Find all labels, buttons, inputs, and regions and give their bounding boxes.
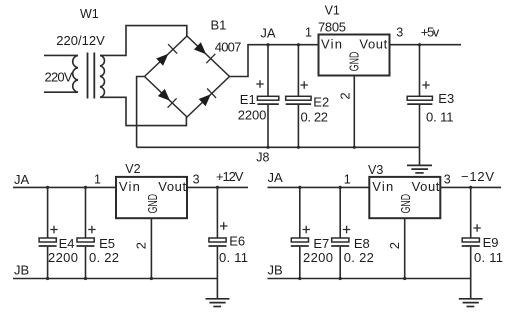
svg-text:0. 22: 0. 22 bbox=[89, 250, 119, 265]
svg-text:2: 2 bbox=[337, 92, 352, 99]
svg-text:E1: E1 bbox=[240, 92, 256, 107]
capacitor E2 bbox=[286, 46, 311, 148]
svg-text:+12V: +12V bbox=[216, 169, 244, 184]
svg-text:Vout: Vout bbox=[412, 179, 440, 194]
wire V1 output to +5v bbox=[390, 44, 462, 46]
capacitor E4 bbox=[39, 188, 58, 278]
svg-text:V1: V1 bbox=[325, 4, 340, 18]
svg-text:1: 1 bbox=[305, 26, 312, 40]
svg-text:Vin: Vin bbox=[119, 179, 140, 194]
regulator V3 bbox=[369, 177, 440, 218]
regulator V2 bbox=[116, 177, 187, 218]
svg-text:0. 22: 0. 22 bbox=[344, 250, 374, 265]
svg-text:2: 2 bbox=[134, 242, 149, 249]
wire V3 output to -12V bbox=[440, 186, 501, 188]
svg-text:2: 2 bbox=[387, 242, 402, 249]
svg-text:220/12V: 220/12V bbox=[56, 33, 105, 48]
svg-text:E6: E6 bbox=[229, 233, 245, 248]
svg-text:7805: 7805 bbox=[318, 20, 346, 35]
svg-text:Vout: Vout bbox=[158, 179, 186, 194]
svg-text:1: 1 bbox=[344, 173, 351, 187]
capacitor E6 bbox=[208, 188, 227, 278]
wire JA rail (bottom right section) bbox=[268, 186, 370, 188]
svg-text:E8: E8 bbox=[354, 236, 370, 251]
svg-text:4007: 4007 bbox=[215, 40, 242, 55]
capacitor E1 bbox=[256, 46, 279, 148]
svg-text:V2: V2 bbox=[125, 162, 140, 176]
svg-text:E2: E2 bbox=[313, 94, 329, 109]
svg-text:2200: 2200 bbox=[238, 107, 266, 122]
svg-text:JB: JB bbox=[268, 263, 283, 278]
capacitor E8 bbox=[331, 188, 350, 278]
ground symbol (bottom left) bbox=[206, 279, 230, 307]
transformer W1 bbox=[44, 53, 105, 99]
svg-text:3: 3 bbox=[444, 173, 451, 187]
svg-text:0. 11: 0. 11 bbox=[474, 250, 503, 265]
junction dots (bottom right) bbox=[298, 186, 472, 280]
svg-text:3: 3 bbox=[396, 26, 403, 40]
svg-text:−12V: −12V bbox=[461, 169, 494, 184]
wire ground rail (top section) bbox=[137, 146, 420, 148]
svg-text:2200: 2200 bbox=[48, 250, 78, 265]
ground symbol (top section) bbox=[407, 147, 432, 173]
svg-text:Vout: Vout bbox=[359, 37, 387, 52]
wire bridge negative to ground rail bbox=[137, 77, 145, 148]
wire JA rail (bottom left section) bbox=[13, 186, 116, 188]
svg-text:0. 11: 0. 11 bbox=[219, 250, 248, 265]
svg-text:W1: W1 bbox=[80, 7, 99, 21]
svg-text:JA: JA bbox=[268, 170, 284, 185]
regulator V1 7805 bbox=[319, 35, 390, 76]
capacitor E5 bbox=[77, 188, 96, 278]
wire secondary top to bridge top bbox=[100, 26, 187, 56]
svg-text:Vin: Vin bbox=[372, 179, 393, 194]
svg-text:GND: GND bbox=[145, 194, 160, 214]
svg-text:V3: V3 bbox=[368, 163, 383, 177]
svg-text:J8: J8 bbox=[256, 151, 269, 165]
svg-text:JB: JB bbox=[14, 263, 29, 278]
wire V3 GND pin 2 bbox=[404, 218, 406, 278]
svg-text:JA: JA bbox=[260, 25, 276, 40]
wire V2 GND pin 2 bbox=[150, 218, 152, 278]
capacitor E3 bbox=[407, 46, 432, 148]
svg-text:B1: B1 bbox=[211, 18, 227, 33]
svg-text:1: 1 bbox=[94, 173, 101, 187]
svg-text:0. 22: 0. 22 bbox=[301, 109, 329, 124]
junction dots (top section) bbox=[266, 43, 421, 149]
svg-text:3: 3 bbox=[193, 173, 200, 187]
svg-text:+5v: +5v bbox=[421, 25, 440, 40]
wire JB rail (bottom right section) bbox=[268, 278, 471, 280]
svg-text:2200: 2200 bbox=[303, 250, 333, 265]
svg-text:E3: E3 bbox=[438, 91, 454, 106]
junction dots (bottom left) bbox=[46, 186, 219, 280]
ground symbol (bottom right) bbox=[459, 279, 483, 307]
capacitor E9 bbox=[462, 188, 481, 278]
wire V1 GND pin 2 bbox=[353, 76, 355, 148]
bridge rectifier B1 bbox=[145, 36, 230, 117]
wire secondary bottom to bridge bottom bbox=[100, 97, 186, 125]
wire V2 output to +12V bbox=[187, 186, 248, 188]
svg-text:Vin: Vin bbox=[321, 37, 342, 52]
svg-text:GND: GND bbox=[346, 52, 361, 72]
capacitor E7 bbox=[291, 188, 310, 278]
wire bridge positive up to JA rail bbox=[230, 45, 319, 77]
svg-text:E7: E7 bbox=[313, 236, 329, 251]
svg-text:0. 11: 0. 11 bbox=[426, 109, 454, 124]
svg-text:220V: 220V bbox=[45, 70, 73, 85]
svg-text:E5: E5 bbox=[99, 236, 115, 251]
svg-text:E9: E9 bbox=[483, 235, 499, 250]
svg-text:JA: JA bbox=[14, 172, 30, 187]
svg-text:GND: GND bbox=[398, 194, 413, 214]
svg-text:E4: E4 bbox=[59, 236, 75, 251]
wire JB rail (bottom left section) bbox=[13, 278, 217, 280]
